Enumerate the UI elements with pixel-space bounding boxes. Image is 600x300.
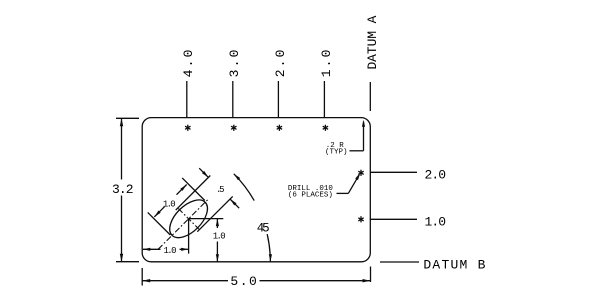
datum B leader bbox=[380, 261, 419, 263]
svg-text:2.0: 2.0 bbox=[425, 167, 447, 182]
datum A extension line bbox=[369, 82, 371, 111]
top dimension line 4.0 bbox=[186, 81, 188, 118]
right label 2.0 leader bbox=[370, 171, 417, 173]
dimension 5.0 extension lines bbox=[141, 268, 143, 286]
slot width dim line .5 with arrows bbox=[199, 168, 208, 177]
horizontal dim 1.0 extension line bbox=[188, 219, 190, 254]
svg-text:1.0: 1.0 bbox=[425, 214, 447, 229]
svg-text:5.0: 5.0 bbox=[230, 274, 257, 289]
drill hole marks (asterisks) bbox=[185, 125, 190, 131]
svg-text:3.2: 3.2 bbox=[112, 182, 134, 197]
45 degree arc dimension bbox=[267, 234, 270, 262]
slot length dim extension lines bbox=[148, 212, 171, 235]
slot centre line (major axis, dash-dot) bbox=[158, 200, 208, 250]
top dimension line 2.0 bbox=[277, 81, 279, 118]
svg-text:.5: .5 bbox=[216, 185, 225, 195]
vertical dim 1.0 extension line bbox=[189, 218, 224, 220]
top dimension line 3.0 bbox=[232, 81, 234, 118]
right label 1.0 leader bbox=[370, 218, 417, 220]
svg-text:3.0: 3.0 bbox=[227, 50, 242, 78]
top dimension line 1.0 bbox=[323, 81, 325, 118]
svg-text:2.0: 2.0 bbox=[273, 50, 288, 78]
slot ellipse bbox=[163, 193, 214, 244]
horizontal dim 1.0 line with arrows bbox=[143, 248, 161, 250]
svg-text:1.0: 1.0 bbox=[163, 199, 176, 209]
svg-text:4.0: 4.0 bbox=[181, 50, 196, 78]
plate outline bbox=[142, 118, 370, 262]
dimension 3.2 line with arrows bbox=[121, 118, 123, 179]
corner radius leader bbox=[350, 150, 364, 152]
svg-text:(6 PLACES): (6 PLACES) bbox=[288, 192, 333, 200]
svg-text:45: 45 bbox=[257, 221, 270, 235]
slot centre line (minor axis, dash-dot) bbox=[178, 209, 199, 230]
svg-text:1.0: 1.0 bbox=[319, 50, 334, 78]
svg-text:(TYP): (TYP) bbox=[325, 148, 348, 156]
svg-text:1.0: 1.0 bbox=[213, 231, 226, 241]
dimension 3.2 extension ticks bbox=[116, 117, 139, 119]
svg-text:DATUM A: DATUM A bbox=[365, 15, 380, 69]
svg-text:1.0: 1.0 bbox=[164, 246, 177, 256]
vertical dim 1.0 line with arrows bbox=[216, 219, 218, 228]
svg-text:DATUM B: DATUM B bbox=[423, 257, 485, 272]
slot width dim extension lines bbox=[176, 176, 211, 211]
slot length dim line 1.0 bbox=[154, 207, 164, 217]
dimension 5.0 line with arrows bbox=[142, 280, 228, 282]
drill note leader bbox=[337, 192, 349, 194]
